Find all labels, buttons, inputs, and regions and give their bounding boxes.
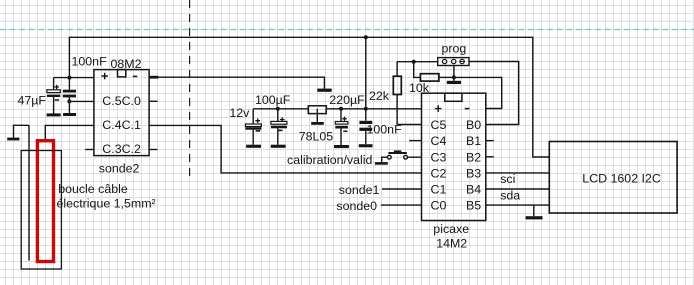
svg-text:C4: C4 bbox=[431, 134, 447, 148]
pin stub B5 wire to LCD ground bbox=[486, 204, 550, 206]
wire sci B3 to LCD bbox=[486, 172, 550, 174]
svg-text:sonde1: sonde1 bbox=[339, 183, 380, 197]
pin stub B2 bbox=[486, 156, 494, 158]
wire 5V rail right of 78L05 bbox=[326, 108, 421, 110]
wire 47uF top to 08M2 plus pin bbox=[54, 77, 94, 79]
svg-text:sci: sci bbox=[500, 172, 515, 186]
capacitor C2 100nF bbox=[63, 78, 76, 116]
switch SW1 calibration push button bbox=[375, 150, 422, 164]
wire junction down to 10k bbox=[414, 62, 421, 78]
svg-text:22k: 22k bbox=[369, 89, 390, 103]
svg-text:220µF: 220µF bbox=[329, 93, 365, 107]
svg-text:B3: B3 bbox=[466, 166, 481, 180]
capacitor C4 100uF bbox=[271, 109, 287, 148]
voltage regulator U2 78L05 bbox=[308, 106, 326, 125]
svg-text:100µF: 100µF bbox=[255, 93, 291, 107]
capacitor C6 100nF bbox=[359, 121, 373, 148]
svg-text:C.1: C.1 bbox=[122, 118, 141, 132]
svg-text:picaxe: picaxe bbox=[433, 222, 469, 236]
wire C.1 to C2 long link bbox=[149, 125, 421, 172]
capacitor C1 47uF bbox=[47, 78, 61, 117]
svg-text:C.5: C.5 bbox=[102, 94, 121, 108]
pin stub C.3 bbox=[85, 149, 94, 151]
wire ground node to minus pin bbox=[454, 77, 502, 108]
wire sonde1 to C1 bbox=[382, 188, 422, 190]
svg-text:B4: B4 bbox=[466, 183, 481, 197]
loop outline black bbox=[21, 151, 61, 270]
wire 12v rail left of 78L05 bbox=[253, 108, 308, 110]
page break dashed cyan line bbox=[0, 29, 694, 31]
ground bar below prog bbox=[447, 81, 461, 84]
svg-text:14M2: 14M2 bbox=[436, 236, 467, 250]
svg-text:C.3: C.3 bbox=[102, 142, 121, 156]
wire junction to C.5 pin bbox=[69, 100, 94, 102]
svg-text:100nF: 100nF bbox=[72, 55, 108, 69]
pin stub C5 wire from 22k bbox=[397, 124, 421, 126]
wire LCD ground drop bbox=[533, 205, 535, 216]
ground left of loop bbox=[7, 125, 29, 140]
wire C.4 pin to loop bbox=[45, 125, 94, 139]
svg-text:47µF: 47µF bbox=[18, 93, 47, 107]
node 220uF junction bbox=[339, 107, 343, 111]
svg-text:B1: B1 bbox=[466, 134, 481, 148]
op-amp U1 08M2 body bbox=[94, 70, 149, 156]
svg-text:calibration/valid: calibration/valid bbox=[287, 153, 373, 167]
svg-text:C5: C5 bbox=[431, 118, 447, 132]
wire loop inner conductor bbox=[28, 125, 30, 260]
node serial junction bbox=[412, 60, 416, 64]
margin guide line bbox=[0, 20, 694, 22]
boucle cable loop (red cable) bbox=[37, 141, 53, 262]
node prog ground junction bbox=[452, 75, 456, 79]
wire sonde0 to C0 bbox=[381, 204, 422, 206]
svg-text:sda: sda bbox=[500, 189, 520, 203]
svg-text:B0: B0 bbox=[466, 118, 481, 132]
svg-text:boucle câble: boucle câble bbox=[58, 182, 128, 196]
capacitor C3 12v electrolytic bbox=[245, 109, 261, 148]
svg-text:C.0: C.0 bbox=[122, 94, 141, 108]
pin stub C.0 bbox=[149, 100, 157, 102]
svg-text:LCD 1602 I2C: LCD 1602 I2C bbox=[582, 171, 661, 185]
svg-text:C3: C3 bbox=[431, 150, 447, 164]
wire +5V top rail bbox=[69, 37, 549, 157]
page break dashed vertical line bbox=[189, 0, 191, 181]
svg-text:prog: prog bbox=[442, 42, 467, 56]
svg-text:C.2: C.2 bbox=[122, 142, 141, 156]
wire prog middle pin down bbox=[453, 66, 455, 81]
svg-text:C0: C0 bbox=[431, 199, 447, 213]
svg-text:B2: B2 bbox=[466, 150, 481, 164]
svg-text:C2: C2 bbox=[431, 166, 447, 180]
ic U3 picaxe 14M2 body bbox=[422, 93, 486, 220]
pin stub B1 bbox=[486, 140, 494, 142]
wire prog pin3 to B0 bbox=[469, 62, 519, 125]
node +5V rail junction bbox=[364, 35, 368, 39]
svg-text:78L05: 78L05 bbox=[299, 130, 334, 144]
wire sda B4 to LCD bbox=[486, 188, 550, 190]
pin stub C.2 bbox=[149, 149, 157, 151]
pin stub C4 bbox=[409, 140, 421, 142]
node 100nF junction bbox=[364, 107, 368, 111]
display LCD 1602 I2C box bbox=[549, 142, 677, 214]
svg-text:B5: B5 bbox=[466, 199, 481, 213]
svg-text:sonde0: sonde0 bbox=[336, 199, 377, 213]
wire 5V vertical from top rail to rail bbox=[365, 37, 367, 120]
svg-text:C.4: C.4 bbox=[102, 118, 121, 132]
connector J1 prog header bbox=[438, 58, 469, 66]
node C2 bottom junction to C.5 bbox=[67, 99, 71, 103]
wire 10k right to prog ground node bbox=[439, 76, 454, 78]
wire serial-in top link bbox=[397, 61, 438, 63]
ground bar LCD bbox=[526, 216, 543, 219]
ground bar mid bbox=[317, 89, 331, 92]
wire 08M2 minus to ground bbox=[149, 77, 324, 89]
junction blob at 08M2 minus pin bbox=[149, 76, 158, 79]
resistor R1 22k bbox=[393, 62, 401, 125]
svg-text:électrique 1,5mm²: électrique 1,5mm² bbox=[57, 197, 156, 211]
svg-text:sonde2: sonde2 bbox=[99, 162, 140, 176]
resistor R2 10k bbox=[420, 74, 439, 81]
node 100uF junction bbox=[276, 107, 280, 111]
svg-text:C1: C1 bbox=[431, 183, 447, 197]
svg-text:12v: 12v bbox=[229, 106, 250, 120]
node cap junction bbox=[67, 76, 71, 80]
capacitor C5 220uF bbox=[334, 109, 349, 148]
svg-text:08M2: 08M2 bbox=[111, 57, 142, 71]
